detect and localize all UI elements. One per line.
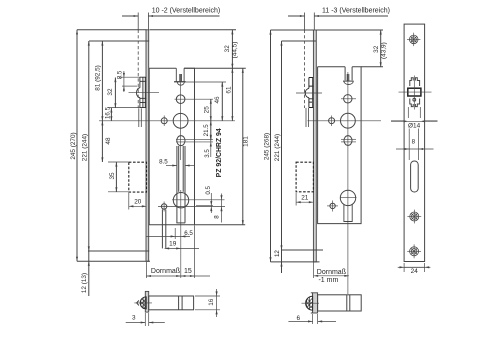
dimension 11 -3 (Verstellbereich) bbox=[288, 15, 305, 17]
middle PZ cylinder hole bbox=[340, 190, 355, 205]
svg-text:10 -2 (Verstellbereich): 10 -2 (Verstellbereich) bbox=[152, 7, 220, 14]
dimension 32 (43,9) bbox=[380, 30, 382, 67]
dimension 8 (slot width) bbox=[408, 129, 410, 161]
middle latch guide pins below bbox=[305, 108, 307, 127]
left bottom view cylinder lines bbox=[178, 296, 180, 310]
faceplate strip outline bbox=[404, 24, 425, 261]
svg-text:32: 32 bbox=[107, 88, 114, 96]
svg-text:221 (244): 221 (244) bbox=[274, 134, 281, 161]
strip latch cutout crown bottom bbox=[410, 99, 420, 107]
strip latch cutout crown top bbox=[410, 78, 420, 86]
extension line above faceplate, middle bbox=[313, 13, 315, 30]
left slot lines below small circle bbox=[161, 210, 163, 249]
dimension 35 (bolt) bbox=[115, 162, 117, 192]
middle bottom view cylinder lines bbox=[346, 295, 348, 311]
dimension 21.5 bbox=[210, 121, 212, 140]
svg-text:Dornmaß: Dornmaß bbox=[317, 269, 346, 276]
strip elongated slot bbox=[411, 161, 419, 192]
extension of faceplate top to right bbox=[150, 29, 237, 31]
middle faceplate bottom extension bbox=[271, 261, 320, 263]
phantom line for adjustment, middle bbox=[304, 13, 306, 30]
svg-text:Dornmaß: Dornmaß bbox=[151, 268, 180, 275]
latch 8.5 step extension bbox=[122, 85, 137, 87]
O14 centerline link from middle lock bbox=[391, 120, 404, 122]
dimension 3 (faceplate thickness) bbox=[144, 313, 146, 326]
middle latch centerline bbox=[296, 92, 322, 94]
dimension 6 (middle faceplate thickness) bbox=[312, 314, 314, 324]
svg-text:24: 24 bbox=[411, 268, 419, 275]
strip latch centerline horizontal bbox=[399, 91, 432, 93]
svg-text:21.5: 21.5 bbox=[203, 124, 210, 137]
svg-text:32: 32 bbox=[373, 45, 380, 53]
dimension 12 (13) bbox=[88, 261, 90, 266]
left latch (Falle) detail bbox=[140, 77, 146, 107]
dimension 6.5 bbox=[146, 235, 190, 237]
middle screw post circle bbox=[344, 95, 352, 103]
dimension 16 (case height) bbox=[195, 295, 220, 297]
left lock case outline bbox=[149, 68, 194, 225]
middle case top extension right bbox=[361, 66, 383, 68]
bolt bottom extension bbox=[108, 191, 129, 193]
dimension 8.5 (latch) bbox=[123, 71, 125, 92]
dimension O14 bbox=[391, 120, 438, 122]
left faceplate top screw line bbox=[146, 40, 149, 42]
left lock faceplate (Stulp), side view bbox=[146, 30, 149, 261]
svg-text:245 (268): 245 (268) bbox=[263, 133, 270, 160]
dimension 21 (middle bolt width) bbox=[296, 201, 313, 203]
svg-text:8.5: 8.5 bbox=[117, 70, 124, 79]
svg-text:25: 25 bbox=[203, 106, 210, 114]
svg-text:181: 181 bbox=[243, 136, 250, 147]
middle small circle left of PZ bbox=[330, 203, 335, 208]
svg-text:12: 12 bbox=[274, 250, 281, 257]
left handle follower big circle bbox=[173, 113, 188, 128]
strip bottom screw hole bbox=[410, 247, 419, 256]
left PZ cylinder hole circle bbox=[173, 193, 188, 208]
dimension 8 (PZ offset) bbox=[221, 194, 223, 223]
left handle axis centerline bbox=[99, 120, 235, 122]
middle latch detail bbox=[309, 78, 314, 108]
svg-text:15: 15 bbox=[184, 268, 192, 275]
svg-text:6.5: 6.5 bbox=[184, 230, 193, 237]
dimension 81 (92,5) and 48 bbox=[101, 41, 103, 162]
svg-text:32: 32 bbox=[224, 45, 231, 53]
dimension 32 (latch) bbox=[114, 78, 116, 108]
dimension 221 (244) middle and 12 bbox=[281, 41, 283, 273]
middle bottom latch centerline bbox=[302, 302, 320, 304]
left notch cup arc bbox=[177, 82, 184, 85]
middle bolt dashed rectangle bbox=[296, 162, 313, 192]
strip middle screw hole bbox=[410, 212, 419, 221]
extension of case top to right bbox=[184, 67, 246, 69]
phantom line for faceplate adjustment range, left bbox=[137, 13, 139, 30]
left latch guide pins below bbox=[138, 108, 140, 127]
middle case top notch bbox=[344, 67, 346, 81]
middle small circle beside follower bbox=[329, 118, 335, 124]
middle handle axis centerline bbox=[308, 120, 382, 122]
middle bottom view faceplate bar with lips bbox=[311, 293, 313, 313]
dimension 10 -2 (Verstellbereich) bbox=[122, 15, 138, 17]
faceplate bottom edge + extension bbox=[77, 260, 150, 262]
extension line y=251 bbox=[88, 250, 146, 252]
dimension 19 bbox=[165, 247, 199, 249]
left small circle beside follower bbox=[161, 118, 167, 124]
middle extension y=30 left and right bbox=[271, 29, 314, 31]
middle notch cup arc bbox=[344, 81, 353, 84]
left case top notch bbox=[176, 68, 184, 81]
latch top extension bbox=[120, 76, 140, 78]
left bottom latch nose tip bbox=[137, 300, 139, 305]
dimension 32 (44,5) and 61 vertical line bbox=[231, 30, 233, 121]
left vertical channel slot walls bbox=[176, 146, 178, 223]
svg-text:0.5: 0.5 bbox=[205, 185, 212, 194]
strip latch small circle bbox=[413, 98, 416, 101]
extension line y=30.5 for 245 dim bbox=[77, 29, 146, 31]
svg-text:8: 8 bbox=[214, 215, 221, 219]
strip latch centerline vertical bbox=[413, 76, 415, 110]
left latch centerline bbox=[129, 92, 160, 94]
dimension 221 (244) and 12 (13) bbox=[88, 41, 90, 296]
left channel inner wall lines bbox=[178, 146, 180, 192]
left small circle left of PZ bbox=[161, 204, 166, 209]
dimension 16.5 bbox=[110, 108, 112, 121]
left screw post circle bbox=[176, 95, 185, 104]
svg-text:(43,9): (43,9) bbox=[380, 42, 387, 59]
dimension 181 bbox=[242, 68, 244, 225]
dimension 12 bbox=[280, 262, 282, 267]
dimension 48 bbox=[101, 121, 103, 126]
left vertical centerline through case bbox=[180, 74, 182, 160]
svg-text:6: 6 bbox=[297, 315, 301, 322]
svg-text:12 (13): 12 (13) bbox=[81, 273, 88, 293]
svg-text:8.5: 8.5 bbox=[159, 158, 168, 165]
svg-text:(44,5): (44,5) bbox=[232, 42, 239, 59]
svg-text:8: 8 bbox=[412, 138, 416, 145]
svg-text:11 -3 (Verstellbereich): 11 -3 (Verstellbereich) bbox=[322, 7, 390, 14]
middle extension y=41 bbox=[282, 40, 314, 42]
svg-text:81 (92,5): 81 (92,5) bbox=[94, 65, 101, 91]
svg-text:16.5: 16.5 bbox=[105, 106, 112, 119]
svg-text:61: 61 bbox=[225, 86, 232, 94]
middle bottom view latch half-round with hatching bbox=[306, 296, 313, 310]
svg-text:3: 3 bbox=[132, 314, 136, 321]
svg-text:16: 16 bbox=[208, 298, 215, 306]
svg-text:21: 21 bbox=[301, 194, 309, 201]
svg-text:PZ 92/CHRZ 94: PZ 92/CHRZ 94 bbox=[216, 128, 223, 177]
middle extension y=250 bbox=[282, 249, 324, 251]
faceplate front extension down bbox=[145, 262, 147, 278]
middle Dornmass dimension bbox=[313, 263, 315, 279]
svg-text:35: 35 bbox=[109, 172, 116, 180]
latch bottom extension bbox=[108, 107, 140, 109]
middle handle follower big circle bbox=[341, 113, 356, 128]
dimension 24 (strip width) bbox=[403, 263, 405, 272]
O14 extension lines bbox=[407, 107, 409, 118]
left bottom view latch half-round with hatching bbox=[140, 297, 146, 309]
svg-text:245 (270): 245 (270) bbox=[70, 132, 77, 159]
dimension 0.5 bbox=[210, 193, 212, 213]
middle notch stem slot bbox=[346, 74, 348, 81]
left crosshair circle (Wechsel) bbox=[177, 136, 185, 146]
strip top screw hole bbox=[409, 35, 418, 44]
middle vertical centerline bbox=[347, 72, 349, 294]
middle bottom view case bbox=[318, 295, 362, 311]
extension line y=41 bbox=[89, 40, 146, 42]
case right edge extension down bbox=[194, 226, 196, 279]
dimension 8.5 (slot width) bbox=[166, 165, 177, 167]
left bottom latch centerline bbox=[134, 302, 152, 304]
svg-text:19: 19 bbox=[169, 240, 177, 247]
left case bottom extension right bbox=[195, 224, 246, 226]
svg-text:3.5: 3.5 bbox=[204, 149, 211, 158]
dimension 3.5 bbox=[210, 135, 212, 157]
left bottom view faceplate bar bbox=[145, 291, 148, 312]
svg-text:221 (244): 221 (244) bbox=[81, 134, 88, 161]
middle crosshair circle bbox=[344, 136, 352, 146]
svg-text:48: 48 bbox=[105, 137, 112, 145]
dimension 25 bbox=[210, 99, 212, 121]
middle lock case outline bbox=[318, 67, 362, 224]
svg-text:20: 20 bbox=[134, 198, 142, 205]
strip latch bold rectangle bbox=[408, 88, 421, 96]
middle lock faceplate bar bbox=[313, 30, 316, 262]
dimension 245 (268) bbox=[270, 30, 272, 262]
dimension 20 (bolt width) bbox=[129, 205, 147, 207]
left faceplate bottom screw line bbox=[146, 250, 149, 252]
dimension 46 bbox=[221, 82, 223, 121]
svg-text:-1 mm: -1 mm bbox=[318, 277, 338, 284]
svg-text:46: 46 bbox=[214, 96, 221, 104]
dimension Dornmass and 15 bbox=[146, 275, 210, 277]
dimension 245 (270) bbox=[76, 30, 78, 261]
middle faceplate screw lines bbox=[313, 40, 316, 42]
left bottom view case bbox=[149, 296, 194, 310]
bolt top extension bbox=[108, 161, 129, 163]
left notch stem slot bbox=[179, 74, 181, 81]
dimension 61 bbox=[231, 68, 233, 73]
notch circle extension right bbox=[174, 81, 226, 83]
extension line above faceplate, left bbox=[147, 13, 149, 30]
left bolt (Riegel) dashed rectangle bbox=[129, 162, 147, 192]
left PZ slot bottom line bbox=[176, 222, 185, 224]
middle notch horizontal tick bbox=[343, 80, 354, 82]
